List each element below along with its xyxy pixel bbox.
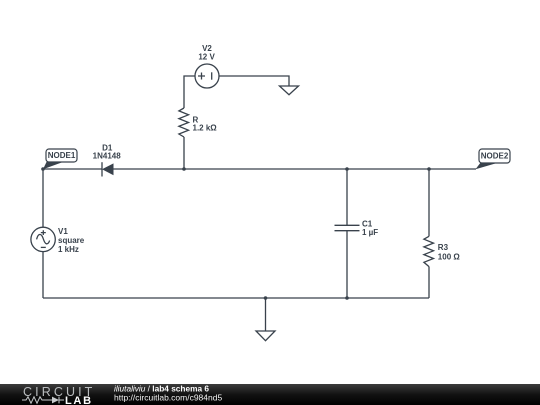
- wire: bottom rail: [43, 297, 429, 299]
- wire: main horizontal left segment (node1 to diode): [43, 168, 102, 170]
- V2 plus sign: [198, 73, 205, 80]
- node NODE2 flag: [476, 149, 511, 169]
- node NODE1 flag: [43, 149, 77, 169]
- svg-text:NODE2: NODE2: [481, 152, 509, 161]
- svg-text:1 kHz: 1 kHz: [58, 245, 79, 254]
- wire: R3 top lead: [428, 169, 430, 236]
- wire: R3 bottom lead: [428, 267, 430, 298]
- diode D1: [102, 162, 114, 176]
- junction at R3 / main wire: [427, 167, 431, 171]
- wire: main horizontal right segment (diode to node2): [114, 168, 477, 170]
- footer bar: [0, 384, 540, 405]
- svg-text:V1: V1: [58, 227, 68, 236]
- capacitor C1: [335, 225, 360, 230]
- resistor R3: [424, 236, 434, 266]
- junction at ground stub: [264, 296, 268, 300]
- wire: C1 bottom lead: [346, 231, 348, 298]
- wire: node1 down to V1: [42, 169, 44, 227]
- V1 sine symbol: [37, 234, 50, 243]
- svg-text:1 µF: 1 µF: [362, 228, 378, 237]
- wire: C1 top lead: [346, 169, 348, 225]
- wire: V1 bottom to bottom rail: [42, 252, 44, 298]
- svg-text:R3: R3: [438, 243, 449, 252]
- svg-text:http://circuitlab.com/c984nd5: http://circuitlab.com/c984nd5: [114, 393, 222, 403]
- V1 plus sign: [41, 230, 46, 235]
- footer logo wire symbol (resistor + diode): [22, 397, 64, 404]
- ground (top): [280, 86, 299, 95]
- V1 minus sign: [41, 246, 46, 248]
- resistor R: [179, 108, 189, 137]
- junction at C1 bottom: [345, 296, 349, 300]
- svg-text:NODE1: NODE1: [48, 151, 76, 160]
- junction at node1 corner: [41, 167, 45, 171]
- wire: V2 left lead to corner: [184, 76, 195, 108]
- svg-text:1.2 kΩ: 1.2 kΩ: [193, 124, 218, 133]
- svg-text:100 Ω: 100 Ω: [438, 253, 461, 262]
- V2 minus (vertical bar): [211, 72, 213, 79]
- wire: R bottom to main node: [183, 137, 185, 169]
- voltage source V1 (circle): [31, 227, 55, 251]
- svg-text:square: square: [58, 236, 85, 245]
- wire: V2 right lead to ground: [219, 76, 289, 86]
- junction at C1 / main wire: [345, 167, 349, 171]
- svg-text:LAB: LAB: [65, 395, 93, 405]
- ground (bottom): [256, 331, 275, 341]
- junction at R / main wire: [182, 167, 186, 171]
- voltage source V2 (circle): [195, 64, 219, 88]
- wire: ground stub: [265, 298, 267, 331]
- svg-text:12 V: 12 V: [198, 53, 215, 62]
- svg-text:1N4148: 1N4148: [93, 152, 122, 161]
